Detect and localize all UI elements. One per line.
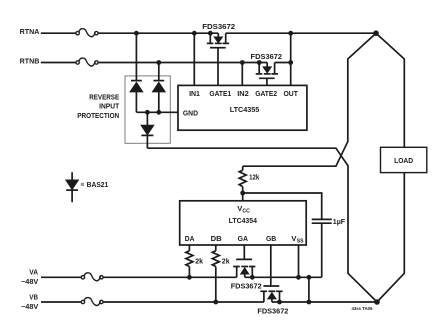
svg-text:2k: 2k — [195, 256, 203, 265]
svg-text:FDS3672: FDS3672 — [257, 307, 288, 316]
wire VCC node to capacitor top — [243, 193, 322, 219]
diode D1 (left protection diode, from RTNA) — [131, 33, 142, 112]
wire T1 output to top apex — [226, 32, 376, 34]
svg-text:2k: 2k — [222, 256, 230, 265]
wire RTNB lead to fuse — [41, 62, 76, 64]
svg-text:RTNA: RTNA — [20, 29, 40, 36]
svg-text:DB: DB — [211, 234, 223, 243]
svg-text:RTNB: RTNB — [20, 59, 40, 66]
wire D3 cathode to lower-left bus (crossover to bottom apex) — [147, 148, 377, 302]
svg-text:GB: GB — [266, 234, 277, 243]
pin label VCC — [237, 204, 250, 215]
fuse F3 (VA) — [81, 273, 103, 281]
resistor R1 12k — [239, 166, 246, 193]
capacitor C1 1uF — [312, 219, 332, 277]
svg-text:43ss TA06: 43ss TA06 — [352, 306, 374, 311]
node VA input label — [21, 270, 39, 287]
reverse input protection outline box — [125, 76, 170, 143]
wire Q4 output bus to bottom apex — [272, 301, 377, 303]
fuse F1 (RTNA) — [76, 29, 98, 37]
wire IN1 pin line — [193, 33, 195, 85]
svg-text:OUT: OUT — [283, 89, 298, 98]
load box — [381, 147, 427, 172]
wire VB lead to fuse — [41, 301, 81, 303]
svg-text:IN1: IN1 — [189, 89, 200, 98]
svg-text:CC: CC — [242, 209, 250, 215]
svg-text:−48V: −48V — [21, 304, 39, 311]
wire VCC pin stub — [242, 193, 244, 201]
svg-text:FDS3672: FDS3672 — [202, 22, 235, 31]
svg-text:GND: GND — [183, 108, 199, 117]
wire GB pin stem — [270, 245, 272, 286]
svg-text:DA: DA — [185, 234, 195, 243]
node VB input label — [21, 294, 39, 311]
svg-text:VA: VA — [29, 270, 38, 277]
svg-text:GA: GA — [238, 234, 249, 243]
diode D4 BAS21 legend symbol — [66, 172, 78, 202]
svg-text:GATE1: GATE1 — [209, 89, 231, 98]
transistor Q2 FDS3672 (top MOSFET on RTNB) — [256, 63, 278, 79]
wire Q2 gate stem to GATE2 pin — [266, 78, 268, 85]
transistor Q1 FDS3672 (top MOSFET on RTNA) — [207, 33, 229, 48]
IC U2 LTC4354 box — [180, 201, 307, 245]
pin label VSS — [291, 234, 304, 245]
svg-text:SS: SS — [297, 239, 304, 245]
wire Q1 gate stem to GATE1 pin — [217, 48, 219, 86]
svg-text:FDS3672: FDS3672 — [251, 52, 283, 61]
wire RTNA rail (fuse to T1 arrow corner) — [98, 32, 218, 34]
wire Q3 output bus to capacitor bottom — [245, 276, 322, 278]
svg-text:12k: 12k — [249, 174, 259, 181]
wire load bottom to bottom apex — [377, 173, 404, 302]
wire OUT pin line — [290, 33, 292, 85]
svg-text:−48V: −48V — [21, 279, 39, 286]
wire VA lead to fuse — [41, 276, 81, 278]
wire VSS pin stub — [298, 245, 300, 277]
IC U1 LTC4355 box — [178, 85, 307, 130]
resistor R2 2k (DA pull) — [186, 245, 193, 277]
svg-text:INPUT: INPUT — [99, 102, 120, 111]
wire bus drop to VB output bus — [308, 277, 310, 302]
wire 12k top to upper-left bus (crossover to top apex) — [243, 33, 376, 166]
svg-text:FDS3672: FDS3672 — [231, 281, 262, 290]
wire RTNB rail (fuse to T2 arrow corner) — [98, 62, 267, 64]
svg-text:REVERSE: REVERSE — [89, 92, 119, 101]
svg-text:LOAD: LOAD — [394, 156, 414, 165]
wire protection common node to GND pin — [136, 111, 178, 113]
transistor Q4 FDS3672 (bottom MOSFET on VB) — [260, 286, 282, 302]
svg-text:IN2: IN2 — [237, 89, 249, 98]
svg-text:PROTECTION: PROTECTION — [77, 111, 119, 120]
wire RTNA lead to fuse — [41, 32, 76, 34]
label REVERSE INPUT PROTECTION — [77, 92, 119, 119]
wire VB rail to Q4 left post — [103, 301, 264, 303]
svg-text:LTC4354: LTC4354 — [229, 216, 258, 225]
wire T2 output to OUT node — [275, 62, 291, 64]
fuse F2 (RTNB) — [76, 58, 98, 66]
wire VA rail to Q3 left post — [103, 276, 237, 278]
label = BAS21 — [81, 183, 84, 186]
transistor Q3 FDS3672 (bottom MOSFET on VA) — [233, 259, 255, 277]
svg-text:BAS21: BAS21 — [87, 180, 109, 189]
wire top apex slants — [376, 33, 404, 147]
diode D3 (series protection diode, down) — [141, 112, 153, 148]
svg-text:LTC4355: LTC4355 — [230, 105, 260, 114]
resistor R3 2k (DB pull) — [212, 245, 219, 302]
svg-text:VB: VB — [29, 294, 38, 301]
diode D2 (right protection diode, from RTNB) — [153, 63, 164, 113]
fuse F4 (VB) — [81, 298, 103, 306]
wire GA pin stem — [243, 245, 245, 259]
svg-text:1µF: 1µF — [333, 217, 346, 226]
svg-text:GATE2: GATE2 — [255, 89, 277, 98]
wire IN2 pin line — [241, 63, 243, 86]
